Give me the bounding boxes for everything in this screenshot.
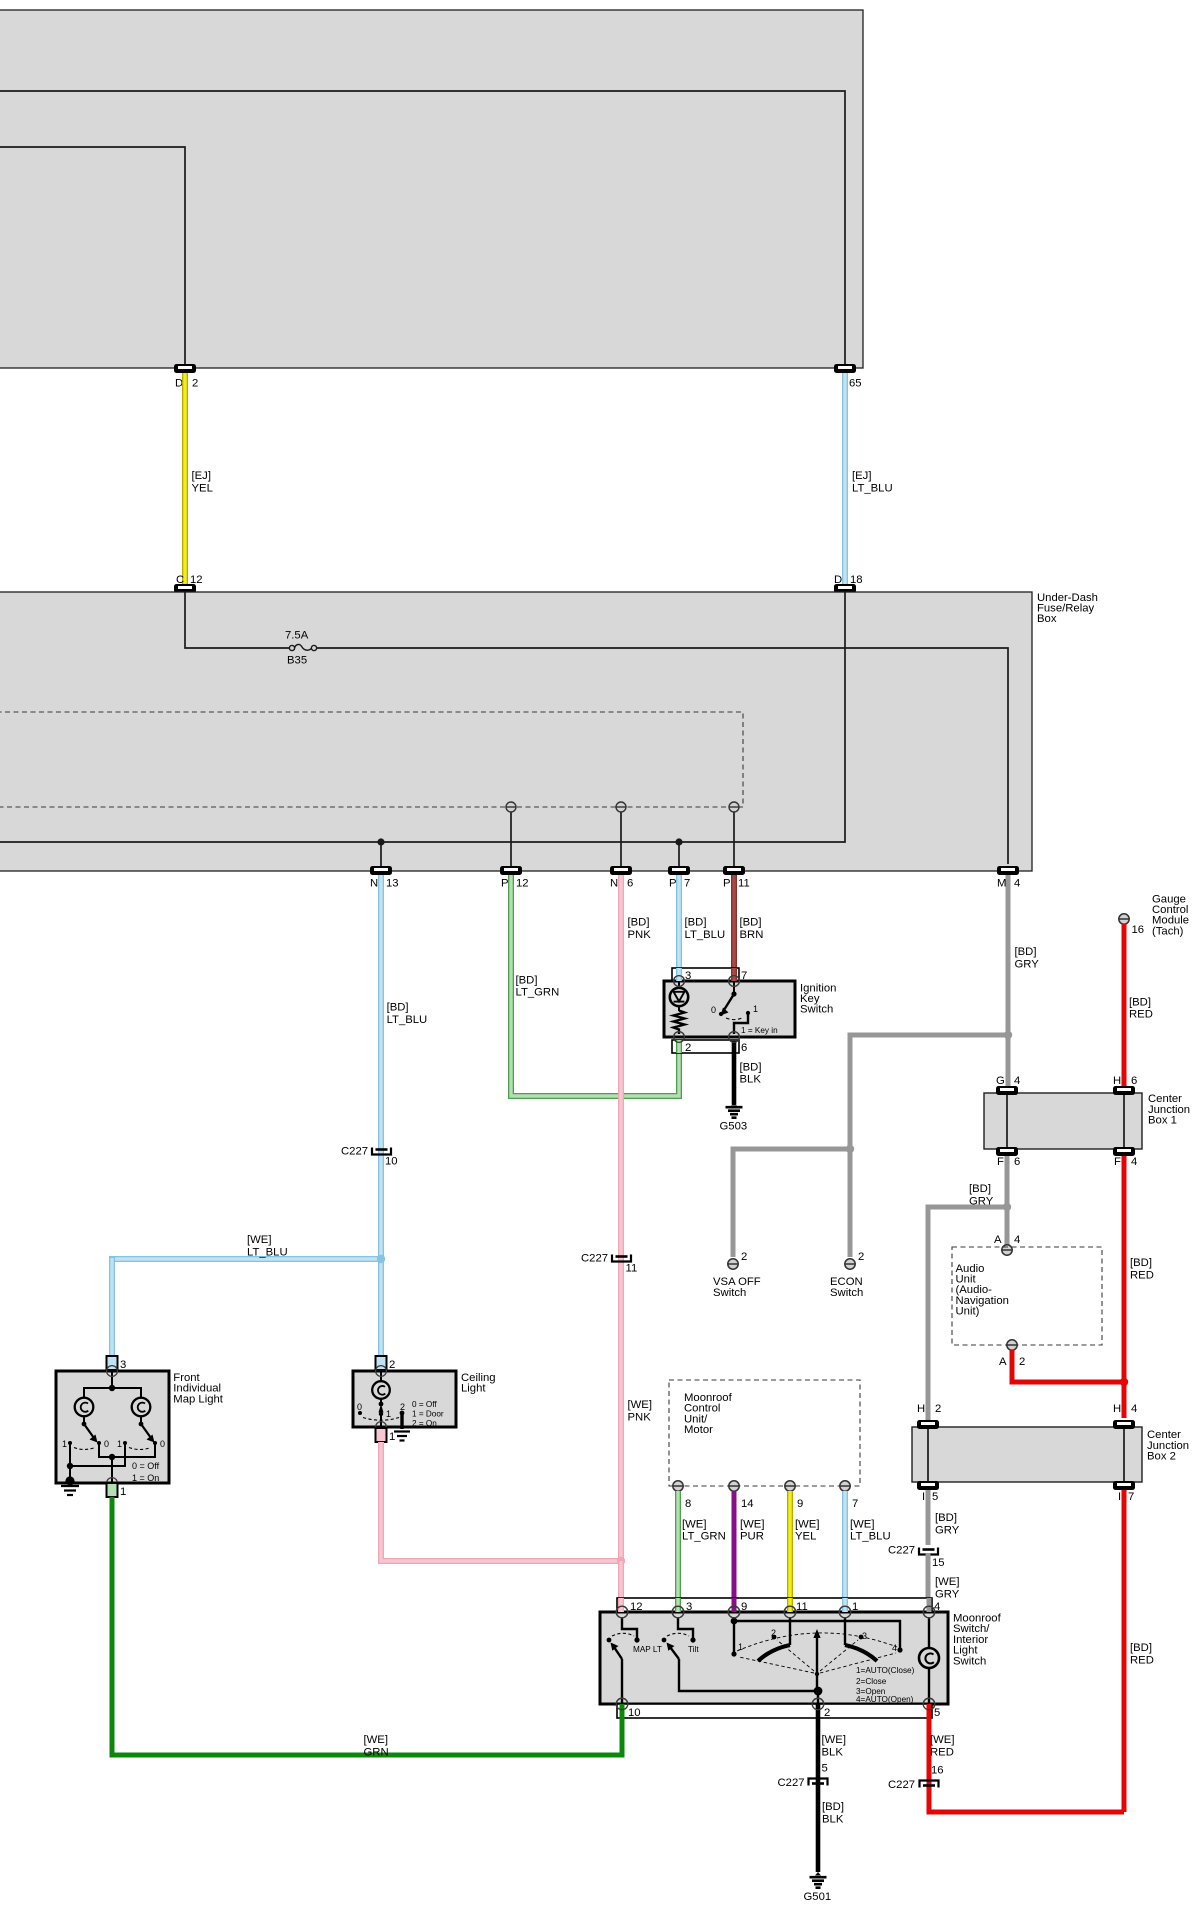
svg-text:RED: RED xyxy=(930,1747,954,1759)
svg-text:Box 2: Box 2 xyxy=(1147,1451,1176,1463)
svg-text:2: 2 xyxy=(685,1042,691,1054)
connector C227 16 xyxy=(888,1765,944,1792)
wire [WE] PNK ceiling light to moonroof pin 12 xyxy=(381,1399,652,1608)
svg-text:[WE]: [WE] xyxy=(628,1399,652,1411)
svg-text:2: 2 xyxy=(192,378,198,390)
svg-text:8: 8 xyxy=(685,1498,691,1510)
svg-text:65: 65 xyxy=(849,378,862,390)
svg-text:Switch: Switch xyxy=(800,1004,833,1016)
map light lamp 2 xyxy=(132,1398,151,1417)
svg-text:[WE]: [WE] xyxy=(364,1734,388,1746)
svg-text:1: 1 xyxy=(62,1439,67,1449)
svg-text:PNK: PNK xyxy=(628,929,652,941)
svg-text:9: 9 xyxy=(797,1498,803,1510)
svg-text:[BD]: [BD] xyxy=(740,1061,762,1073)
moonroof switch top connector strip xyxy=(617,1598,940,1613)
svg-text:11: 11 xyxy=(626,1263,638,1275)
connector P 7 xyxy=(668,866,690,890)
svg-text:[BD]: [BD] xyxy=(516,974,538,986)
ground G501 xyxy=(804,1872,832,1903)
svg-text:C227: C227 xyxy=(888,1779,915,1791)
connector C227 11 xyxy=(581,1253,637,1275)
wire [WE] LT_BLU terminal 7 to moonroof pin 1 xyxy=(845,1491,891,1608)
ground G503 xyxy=(720,1102,748,1133)
front individual map light box xyxy=(56,1371,224,1483)
svg-text:GRY: GRY xyxy=(935,1589,960,1601)
svg-text:LT_GRN: LT_GRN xyxy=(516,987,560,999)
gauge control module terminal 16 xyxy=(1119,893,1189,937)
svg-text:BLK: BLK xyxy=(822,1747,844,1759)
moonroof unit terminal 9 xyxy=(785,1481,803,1510)
connector C227 15 xyxy=(888,1545,945,1570)
map light pin 3 connector xyxy=(107,1356,127,1371)
connector P 11 xyxy=(723,866,750,890)
svg-text:0 = Off: 0 = Off xyxy=(412,1400,437,1409)
gray branch to VSA OFF and ECON switches xyxy=(733,1031,1012,1257)
wire [WE] BLK moonroof pin 2 down xyxy=(818,1718,846,1872)
svg-text:[WE]: [WE] xyxy=(682,1518,706,1530)
map light ground net xyxy=(65,1443,125,1486)
svg-text:LT_BLU: LT_BLU xyxy=(685,929,726,941)
svg-text:[WE]: [WE] xyxy=(850,1518,874,1530)
ceiling light pin 1 connector xyxy=(376,1428,396,1443)
wire [EJ] LT_BLU xyxy=(845,373,893,584)
svg-text:I: I xyxy=(922,1491,925,1503)
connector H 6 xyxy=(1113,1075,1137,1095)
svg-text:N: N xyxy=(370,878,378,890)
wire [BD] RED F4 to H4 xyxy=(1124,1156,1154,1418)
svg-text:4: 4 xyxy=(1131,1156,1137,1168)
audio unit (dashed box) xyxy=(952,1247,1102,1345)
map light pin circles xyxy=(107,1366,118,1489)
svg-text:P: P xyxy=(669,878,677,890)
svg-text:2=Close: 2=Close xyxy=(856,1677,887,1686)
svg-text:1=AUTO(Close): 1=AUTO(Close) xyxy=(856,1666,915,1675)
wire [EJ] YEL xyxy=(185,373,213,584)
wire [BD] BRN from P11 to ignition pin 7 xyxy=(734,875,763,982)
connector N 13 xyxy=(370,866,399,890)
wire [BD] PNK from N6 xyxy=(621,875,651,1561)
connector H 4 xyxy=(1113,1403,1137,1429)
wire [BD] RED I7 down xyxy=(1124,1490,1154,1812)
wire [BD] BLK to G501 xyxy=(822,1801,844,1825)
svg-text:P: P xyxy=(723,878,731,890)
svg-text:[BD]: [BD] xyxy=(685,917,707,929)
svg-text:10: 10 xyxy=(385,1156,398,1168)
red wire A2 to main red xyxy=(1012,1350,1128,1386)
wire [BD] LT_BLU from P7 to ignition pin 3 xyxy=(679,875,725,970)
connector D 2 xyxy=(174,364,198,390)
svg-text:11: 11 xyxy=(738,878,750,890)
svg-text:7.5A: 7.5A xyxy=(285,630,309,642)
svg-text:1 = Door: 1 = Door xyxy=(412,1410,444,1419)
svg-text:10: 10 xyxy=(628,1707,641,1719)
svg-text:C227: C227 xyxy=(581,1253,608,1265)
svg-text:Box 1: Box 1 xyxy=(1148,1115,1177,1127)
map light lamp 1 xyxy=(75,1398,94,1417)
svg-text:2: 2 xyxy=(1019,1356,1025,1368)
svg-text:D: D xyxy=(175,378,183,390)
ignition pin circles xyxy=(674,976,740,1043)
center junction box 2 xyxy=(912,1427,1189,1482)
svg-text:A: A xyxy=(999,1356,1007,1368)
moonroof control unit/motor (dashed box) xyxy=(669,1380,860,1486)
connector F 6 xyxy=(996,1147,1020,1168)
connector C227 10 xyxy=(341,1146,398,1168)
Tilt switch xyxy=(662,1617,818,1691)
svg-text:BRN: BRN xyxy=(740,929,764,941)
svg-text:B35: B35 xyxy=(287,655,307,667)
svg-text:Tilt: Tilt xyxy=(688,1645,699,1654)
svg-text:GRN: GRN xyxy=(364,1747,389,1759)
connector D 18 xyxy=(834,574,863,593)
under-dash fuse/relay box xyxy=(0,592,1098,871)
interior light lamp in switch xyxy=(919,1617,939,1704)
svg-text:YEL: YEL xyxy=(192,482,213,494)
svg-text:1: 1 xyxy=(120,1486,126,1498)
wire [BD] BLK ignition pin 6 to G503 xyxy=(734,1053,761,1104)
ignition key switch bottom connector strip xyxy=(672,968,747,1054)
svg-text:H: H xyxy=(917,1403,925,1415)
svg-text:1 = On: 1 = On xyxy=(132,1473,159,1483)
svg-text:0: 0 xyxy=(711,1005,716,1015)
moonroof unit terminal 14 xyxy=(729,1481,754,1510)
svg-text:LT_BLU: LT_BLU xyxy=(387,1014,428,1026)
svg-text:[WE]: [WE] xyxy=(740,1518,764,1530)
ceiling light switch xyxy=(357,1399,444,1428)
svg-text:5: 5 xyxy=(932,1491,938,1503)
wire [WE] RED moonroof pin 5 to I7 red xyxy=(929,1718,1124,1812)
wire [WE] GRY C227 to moonroof pin 4 xyxy=(928,1553,960,1606)
connector 65 xyxy=(834,364,862,390)
svg-text:M: M xyxy=(997,878,1006,890)
svg-text:2: 2 xyxy=(771,1628,776,1638)
svg-text:[WE]: [WE] xyxy=(935,1576,959,1588)
svg-text:YEL: YEL xyxy=(795,1531,816,1543)
moonroof switch common to pin 2 xyxy=(814,1666,915,1704)
svg-text:Box: Box xyxy=(1037,613,1057,625)
svg-text:18: 18 xyxy=(850,574,863,586)
svg-text:MAP LT: MAP LT xyxy=(633,1645,662,1654)
svg-text:GRY: GRY xyxy=(935,1525,960,1537)
connector C 12 xyxy=(174,574,203,593)
svg-text:[BD]: [BD] xyxy=(387,1002,409,1014)
svg-text:I: I xyxy=(1118,1491,1121,1503)
svg-text:0 = Off: 0 = Off xyxy=(132,1461,160,1471)
map light switch 2 xyxy=(117,1417,165,1450)
svg-text:4: 4 xyxy=(1014,1075,1020,1087)
svg-text:RED: RED xyxy=(1129,1009,1153,1021)
svg-text:4=AUTO(Open): 4=AUTO(Open) xyxy=(856,1695,914,1704)
wire inside top box to pin D2 xyxy=(0,147,185,364)
svg-text:[BD]: [BD] xyxy=(935,1512,957,1524)
connector H 2 xyxy=(917,1403,941,1429)
svg-text:[WE]: [WE] xyxy=(930,1734,954,1746)
svg-text:[WE]: [WE] xyxy=(822,1734,846,1746)
wire [WE] GRN map light pin 1 to moonroof pin 10 xyxy=(112,1497,622,1759)
svg-text:0: 0 xyxy=(104,1439,109,1449)
svg-text:[BD]: [BD] xyxy=(628,917,650,929)
svg-text:Light: Light xyxy=(461,1383,486,1395)
svg-text:6: 6 xyxy=(741,1042,747,1054)
svg-text:Map Light: Map Light xyxy=(173,1393,223,1405)
svg-text:Switch: Switch xyxy=(953,1655,986,1667)
ignition key switch body U1 xyxy=(664,981,836,1037)
svg-text:1: 1 xyxy=(386,1409,391,1419)
svg-text:2: 2 xyxy=(389,1359,395,1371)
terminal to P12 xyxy=(506,802,516,866)
svg-text:C227: C227 xyxy=(888,1545,915,1557)
wire [WE] LT_GRN terminal 8 to moonroof pin 3 xyxy=(678,1491,726,1608)
svg-text:[WE]: [WE] xyxy=(795,1518,819,1530)
svg-text:C227: C227 xyxy=(778,1777,805,1789)
wire [WE] PUR terminal 14 to moonroof pin 9 xyxy=(734,1491,764,1608)
audio unit terminal A 2 xyxy=(999,1340,1025,1368)
terminal to P11 xyxy=(729,802,739,866)
svg-text:[BD]: [BD] xyxy=(740,917,762,929)
center junction box 1 xyxy=(984,1093,1190,1149)
svg-text:GRY: GRY xyxy=(1015,958,1040,970)
svg-text:12: 12 xyxy=(190,574,203,586)
ceiling light pin 2 connector xyxy=(376,1356,396,1371)
ceiling light ground branch xyxy=(394,1413,410,1441)
moonroof unit terminal 8 xyxy=(673,1481,691,1510)
svg-text:3: 3 xyxy=(862,1631,867,1641)
wire [WE] LT_BLU branch to map light xyxy=(112,1234,385,1357)
svg-text:PUR: PUR xyxy=(740,1531,764,1543)
ignition key switch top connector strip xyxy=(672,968,747,982)
svg-text:(Tach): (Tach) xyxy=(1152,925,1184,937)
wire D18 to internal bus xyxy=(0,592,845,842)
gray branch F6 node to H2 xyxy=(928,1203,1011,1420)
svg-text:5: 5 xyxy=(934,1707,940,1719)
svg-text:H: H xyxy=(1113,1075,1121,1087)
svg-text:2: 2 xyxy=(400,1402,405,1412)
svg-text:P: P xyxy=(501,878,509,890)
svg-text:[BD]: [BD] xyxy=(1130,1642,1152,1654)
wire [BD] LT_BLU from N13 to ceiling light xyxy=(381,875,427,1357)
ceiling light lamp xyxy=(372,1371,390,1399)
svg-text:[BD]: [BD] xyxy=(1129,996,1151,1008)
svg-text:4: 4 xyxy=(1131,1403,1137,1415)
connector N 6 xyxy=(610,866,633,890)
svg-text:G503: G503 xyxy=(720,1121,748,1133)
svg-text:1: 1 xyxy=(738,1642,743,1652)
wire inside top box to pin 65 xyxy=(0,91,845,364)
ignition key switch contacts 0/1 xyxy=(711,981,778,1035)
svg-text:14: 14 xyxy=(741,1498,754,1510)
svg-text:7: 7 xyxy=(852,1498,858,1510)
svg-text:4: 4 xyxy=(892,1643,897,1653)
moonroof rotary switch xyxy=(731,1617,903,1691)
svg-text:[BD]: [BD] xyxy=(969,1183,991,1195)
connector C227 5 xyxy=(778,1763,828,1790)
svg-text:G: G xyxy=(996,1075,1005,1087)
svg-text:N: N xyxy=(610,878,618,890)
moonroof unit terminal 7 xyxy=(840,1481,858,1510)
svg-text:BLK: BLK xyxy=(822,1814,844,1826)
svg-text:Motor: Motor xyxy=(684,1424,713,1436)
svg-text:LT_BLU: LT_BLU xyxy=(247,1246,288,1258)
svg-text:Unit): Unit) xyxy=(956,1306,980,1318)
ceiling light pin 1 path xyxy=(376,1366,387,1433)
connector I 7 xyxy=(1113,1481,1135,1503)
svg-text:7: 7 xyxy=(684,878,690,890)
audio unit terminal A 4 xyxy=(994,1234,1020,1255)
svg-text:[BD]: [BD] xyxy=(1130,1257,1152,1269)
svg-text:[WE]: [WE] xyxy=(247,1234,271,1246)
svg-text:LT_BLU: LT_BLU xyxy=(850,1531,891,1543)
svg-text:2: 2 xyxy=(741,1251,747,1263)
moonroof switch top pin circles xyxy=(616,1606,935,1618)
svg-text:16: 16 xyxy=(931,1765,944,1777)
svg-text:G501: G501 xyxy=(804,1891,832,1903)
connector P 12 xyxy=(500,866,529,890)
svg-text:C: C xyxy=(176,574,184,586)
svg-text:0: 0 xyxy=(160,1439,165,1449)
svg-text:2: 2 xyxy=(935,1403,941,1415)
svg-text:Switch: Switch xyxy=(713,1287,746,1299)
VSA OFF switch terminal xyxy=(713,1251,761,1299)
connector F 4 xyxy=(1113,1147,1137,1168)
wire [BD] GRY F6 to audio unit A4 xyxy=(969,1156,1007,1247)
moonroof switch / interior light switch body xyxy=(600,1612,1002,1704)
svg-text:13: 13 xyxy=(386,878,399,890)
svg-text:H: H xyxy=(1113,1403,1121,1415)
svg-text:2: 2 xyxy=(824,1707,830,1719)
svg-text:Switch: Switch xyxy=(830,1287,863,1299)
ECON switch terminal xyxy=(830,1251,864,1299)
svg-text:7: 7 xyxy=(1128,1491,1134,1503)
connector G 4 xyxy=(996,1075,1020,1095)
junction on bus at P7 xyxy=(675,838,682,866)
svg-text:1 = Key in: 1 = Key in xyxy=(741,1026,778,1035)
svg-text:PNK: PNK xyxy=(628,1412,652,1424)
moonroof switch bottom pin circles xyxy=(616,1698,935,1710)
relay module (dashed) inside under-dash box xyxy=(0,712,743,807)
MAP LT switch xyxy=(607,1617,662,1704)
wire [BD] GRY from M4 to G4 xyxy=(1008,875,1039,1086)
svg-text:1: 1 xyxy=(117,1439,122,1449)
svg-text:6: 6 xyxy=(627,878,633,890)
svg-text:4: 4 xyxy=(1014,878,1020,890)
svg-text:[EJ]: [EJ] xyxy=(192,470,211,482)
wire [BD] LT_GRN from P12 to ignition switch pin 2 xyxy=(511,875,679,1096)
fuse 7.5A B35 wire C12 to M4 xyxy=(185,592,1008,864)
connector M 4 xyxy=(997,866,1020,890)
svg-text:[BD]: [BD] xyxy=(1015,946,1037,958)
svg-text:F: F xyxy=(997,1156,1004,1168)
wire [WE] YEL terminal 9 to moonroof pin 11 xyxy=(790,1491,819,1608)
wire [BD] RED gauge to H6 xyxy=(1124,924,1153,1086)
svg-text:5: 5 xyxy=(822,1763,828,1775)
svg-text:RED: RED xyxy=(1130,1270,1154,1282)
map light output net to pin 1 xyxy=(99,1443,160,1483)
connector I 5 xyxy=(917,1481,939,1503)
map light internal feed xyxy=(84,1371,141,1398)
map light switch 1 xyxy=(62,1417,109,1450)
ignition key-in indicator (LED + resistor) xyxy=(670,981,688,1034)
wire [BD] GRY I5 to C227 15 xyxy=(928,1490,960,1545)
map light ground symbol xyxy=(61,1486,79,1495)
svg-text:6: 6 xyxy=(1131,1075,1137,1087)
svg-text:LT_BLU: LT_BLU xyxy=(852,482,893,494)
svg-text:3: 3 xyxy=(120,1359,126,1371)
svg-text:RED: RED xyxy=(1130,1655,1154,1667)
terminal to N6 xyxy=(616,802,626,866)
svg-text:C227: C227 xyxy=(341,1146,368,1158)
svg-text:2: 2 xyxy=(858,1251,864,1263)
svg-text:A: A xyxy=(994,1234,1002,1246)
svg-text:2 = On: 2 = On xyxy=(412,1419,437,1428)
svg-text:D: D xyxy=(834,574,842,586)
svg-text:12: 12 xyxy=(516,878,529,890)
svg-text:4: 4 xyxy=(1014,1234,1020,1246)
svg-text:F: F xyxy=(1114,1156,1121,1168)
svg-text:1: 1 xyxy=(753,1004,758,1014)
svg-text:[EJ]: [EJ] xyxy=(852,470,871,482)
svg-text:6: 6 xyxy=(1014,1156,1020,1168)
svg-text:BLK: BLK xyxy=(740,1074,762,1086)
svg-text:1: 1 xyxy=(389,1431,395,1443)
svg-text:15: 15 xyxy=(932,1557,945,1569)
dash harness box (top) xyxy=(0,10,863,368)
map light pin 1 connector xyxy=(107,1483,127,1498)
svg-text:0: 0 xyxy=(357,1402,362,1412)
svg-text:[BD]: [BD] xyxy=(822,1801,844,1813)
ceiling light box xyxy=(353,1371,496,1427)
svg-text:16: 16 xyxy=(1132,924,1145,936)
junction on bus at N13 xyxy=(377,838,384,866)
moonroof switch bottom connector strip xyxy=(616,1598,940,1719)
svg-text:LT_GRN: LT_GRN xyxy=(682,1531,726,1543)
